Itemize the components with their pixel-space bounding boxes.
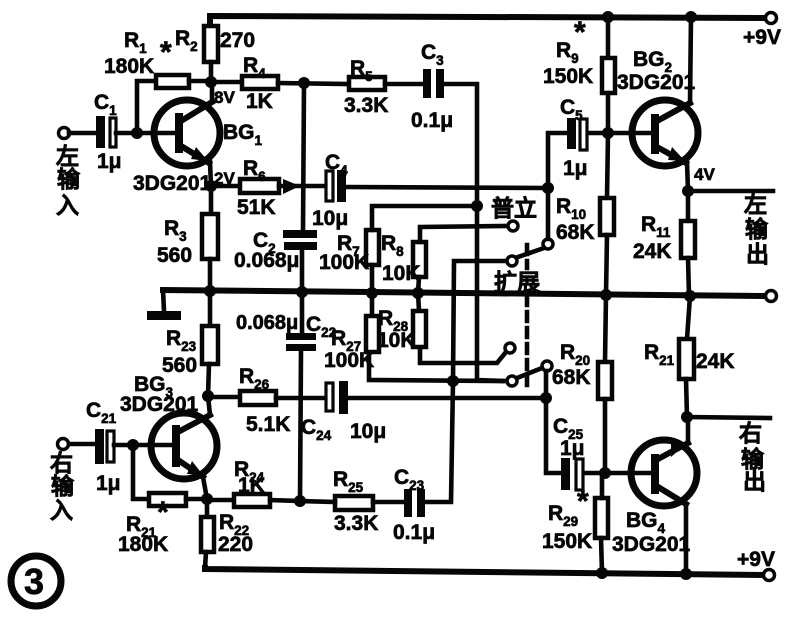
terminal right input	[58, 439, 69, 450]
capacitor C5	[567, 118, 576, 149]
wire R26 to C24	[276, 396, 326, 401]
wire bottom +9V rail	[205, 568, 763, 575]
resistor R23	[208, 291, 213, 328]
switch upper common	[543, 239, 553, 249]
contact lower switch upper throw	[505, 343, 515, 353]
svg-text:100K: 100K	[319, 251, 369, 274]
wire node to R24	[207, 498, 234, 503]
svg-text:输: 输	[745, 216, 769, 242]
resistor R21 feedback	[149, 493, 186, 506]
wire left output	[688, 189, 773, 194]
resistor R1	[156, 75, 189, 88]
node mid-R11	[684, 290, 696, 302]
resistor R4	[242, 76, 278, 89]
switch lower common	[542, 361, 552, 371]
wire mid line	[163, 290, 766, 296]
wire R24 to node	[270, 500, 300, 501]
figure number 3	[11, 556, 61, 606]
svg-text:3DG201: 3DG201	[612, 533, 691, 556]
svg-text:3DG201: 3DG201	[120, 393, 199, 416]
svg-text:1μ: 1μ	[97, 150, 122, 173]
resistor R21 right	[687, 296, 690, 339]
svg-text:入: 入	[56, 192, 79, 218]
resistor R25	[335, 496, 373, 510]
terminal +9V top	[766, 13, 777, 24]
resistor R11	[686, 191, 691, 221]
capacitor C24	[326, 383, 333, 411]
svg-text:5.1K: 5.1K	[246, 413, 290, 436]
wire input to C21	[69, 442, 95, 447]
wire right output	[687, 417, 770, 418]
terminal left input	[59, 128, 70, 139]
wire node 2V to R6	[211, 184, 240, 189]
svg-text:*: *	[577, 485, 589, 518]
wire top +9V rail	[210, 16, 771, 26]
wire node to R10	[607, 133, 608, 198]
node rail-R29	[596, 567, 608, 579]
svg-text:68K: 68K	[556, 221, 595, 244]
wire node to R26	[208, 395, 240, 400]
wire C25 to BG4 base	[584, 471, 651, 476]
resistor R24	[234, 494, 270, 507]
svg-text:左: 左	[744, 191, 767, 217]
transistor BG2	[632, 100, 698, 166]
resistor R8	[413, 242, 426, 277]
svg-text:51K: 51K	[237, 196, 276, 219]
svg-text:+9V: +9V	[737, 548, 775, 571]
wire C23 up to node A	[425, 381, 453, 502]
wire C21 to BG3 base	[114, 443, 172, 448]
svg-text:输: 输	[51, 473, 75, 499]
wire C4 to switch node	[346, 187, 548, 188]
resistor R28	[418, 293, 419, 311]
wire R9 to node	[606, 93, 611, 133]
wire BG2 emitter to node 4V	[687, 162, 688, 191]
wire R2 to node 8V	[209, 62, 214, 82]
svg-text:出: 出	[746, 241, 769, 267]
capacitor C25	[546, 398, 562, 473]
capacitor C21	[95, 429, 104, 464]
wire BG1 emitter to node 2V	[210, 162, 211, 186]
svg-text:560: 560	[162, 354, 197, 377]
node base BG1 / R1	[131, 127, 143, 139]
wire R10 to mid line	[606, 235, 607, 295]
resistor R2	[204, 26, 218, 62]
svg-text:1K: 1K	[246, 90, 273, 113]
svg-text:560: 560	[157, 244, 192, 267]
node lower switch common	[540, 392, 552, 404]
resistor R20	[605, 295, 606, 362]
node A R27-C23-switch	[447, 375, 459, 387]
wire R5 to C3	[385, 82, 424, 87]
svg-text:24K: 24K	[696, 350, 735, 373]
node C25-R20-R29	[599, 467, 611, 479]
wire input to C1	[69, 131, 97, 136]
svg-text:0.068μ: 0.068μ	[236, 312, 298, 334]
resistor R6	[240, 179, 279, 193]
svg-text:输: 输	[57, 166, 81, 192]
resistor R3	[209, 186, 214, 215]
node BG3 emitter	[201, 493, 213, 505]
node right output	[681, 411, 693, 423]
svg-text:24K: 24K	[633, 240, 672, 263]
node base BG3	[127, 439, 139, 451]
resistor R22	[205, 499, 210, 517]
capacitor C3	[423, 69, 431, 98]
node mid-R8	[412, 287, 424, 299]
node rail-R9	[602, 11, 614, 23]
node mid-R3	[204, 285, 216, 297]
wire R28 to lower switch throw	[420, 347, 506, 363]
capacitor C22	[300, 292, 305, 334]
wire C3 right then down to node A	[444, 84, 503, 381]
wire BG3 emitter to node	[203, 477, 207, 499]
svg-text:68K: 68K	[552, 366, 591, 389]
svg-text:1μ: 1μ	[560, 437, 585, 460]
wire R6 to C4 with arrow	[279, 184, 326, 189]
node 4V	[682, 185, 694, 197]
svg-text:150K: 150K	[542, 530, 592, 553]
wire base node down to R21 feedback	[133, 445, 149, 499]
contact upper switch lower throw	[507, 256, 517, 266]
capacitor C1	[96, 116, 105, 148]
svg-text:2V: 2V	[214, 169, 235, 188]
node R4-R5-C2	[298, 77, 310, 89]
resistor R10	[600, 198, 614, 235]
node 8V	[205, 76, 217, 88]
wire C1 to BG1 base	[116, 131, 176, 136]
svg-text:*: *	[574, 16, 586, 49]
ground	[163, 290, 164, 311]
wire rail to R9	[606, 17, 611, 58]
svg-text:1K: 1K	[238, 474, 265, 497]
terminal mid right	[766, 291, 777, 302]
node C5-R9-R10	[602, 127, 614, 139]
node R24-R25-C22	[294, 495, 306, 507]
svg-text:4V: 4V	[694, 165, 715, 184]
wire R1 to node 8V	[189, 79, 211, 84]
node 2V	[205, 180, 217, 192]
svg-text:1μ: 1μ	[96, 472, 121, 495]
transistor BG1	[154, 100, 220, 166]
svg-text:入: 入	[50, 497, 73, 523]
wire C24 to lower switch node	[348, 396, 546, 401]
node rail-BG4 collector	[680, 568, 692, 580]
wire R4 to node	[278, 83, 349, 84]
node rail-BG2 collector	[685, 11, 697, 23]
resistor R26	[240, 391, 276, 405]
capacitor C4	[326, 171, 333, 201]
wire base node up to R1	[137, 81, 156, 133]
svg-text:180K: 180K	[104, 55, 154, 78]
svg-text:0.1μ: 0.1μ	[411, 109, 453, 132]
svg-text:180K: 180K	[118, 533, 168, 556]
node mid-R7	[366, 287, 378, 299]
svg-text:*: *	[157, 496, 169, 529]
svg-text:3.3K: 3.3K	[344, 94, 388, 117]
wire R21 to emitter node	[186, 497, 207, 502]
node BG3 collector / R26	[202, 390, 214, 402]
svg-text:右: 右	[739, 420, 762, 446]
wire C5 to BG2 base	[588, 131, 652, 136]
svg-text:+9V: +9V	[743, 26, 781, 49]
wire node A up to upper switch throw	[453, 261, 507, 381]
svg-text:普立: 普立	[491, 195, 537, 221]
switch gang dashed link	[525, 245, 530, 268]
svg-text:10K: 10K	[382, 262, 421, 285]
resistor R7	[366, 230, 379, 265]
svg-text:*: *	[160, 36, 172, 69]
capacitor C2	[303, 83, 304, 231]
contact upper switch upper throw	[508, 221, 518, 231]
node mid-R10	[600, 289, 612, 301]
svg-text:150K: 150K	[543, 65, 593, 88]
svg-text:10μ: 10μ	[312, 207, 348, 230]
svg-text:10K: 10K	[377, 329, 416, 352]
svg-text:3DG201: 3DG201	[133, 172, 212, 195]
svg-text:1μ: 1μ	[563, 157, 588, 180]
node C4-C5-switch	[542, 182, 554, 194]
svg-text:3.3K: 3.3K	[334, 512, 378, 535]
resistor R29	[595, 498, 608, 538]
terminal +9V bottom	[764, 570, 775, 581]
svg-text:270: 270	[220, 29, 255, 52]
svg-text:3: 3	[24, 561, 44, 602]
node mid-C2	[296, 286, 308, 298]
svg-text:10μ: 10μ	[350, 420, 386, 443]
wire R25 to C23	[373, 500, 404, 505]
resistor R5	[349, 77, 385, 90]
svg-text:100K: 100K	[324, 349, 374, 372]
capacitor C23	[404, 489, 412, 517]
switch upper arm	[518, 248, 544, 257]
switch lower arm	[517, 368, 542, 378]
svg-text:扩展: 扩展	[494, 269, 540, 295]
svg-text:0.1μ: 0.1μ	[393, 521, 435, 544]
wire R27 bottom to contact C	[369, 352, 503, 381]
svg-text:220: 220	[218, 533, 253, 556]
svg-text:出: 出	[743, 468, 766, 494]
transistor BG3	[151, 413, 217, 479]
svg-text:3DG201: 3DG201	[617, 71, 696, 94]
svg-text:8V: 8V	[214, 88, 235, 107]
wire node up to C5	[548, 133, 568, 188]
transistor BG4	[631, 440, 697, 506]
svg-text:0.068μ: 0.068μ	[234, 249, 299, 272]
wire node 8V to R4	[211, 80, 242, 85]
contact lower switch lower throw	[507, 376, 517, 386]
resistor R27	[370, 293, 375, 316]
resistor R9	[602, 58, 615, 93]
